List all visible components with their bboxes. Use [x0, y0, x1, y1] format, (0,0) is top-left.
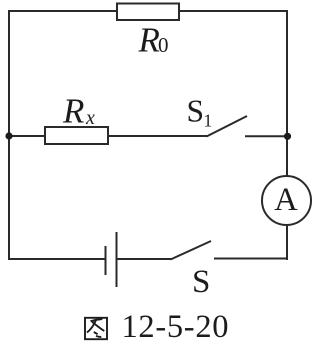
- wire right side upper: [286, 10, 288, 177]
- wire right side lower: [286, 225, 288, 261]
- battery BT1 negative plate: [105, 246, 107, 275]
- wire left side: [8, 10, 10, 260]
- wire bottom-left segment: [9, 258, 105, 260]
- wire S1 to right node: [245, 135, 287, 137]
- resistor R0: [117, 4, 179, 21]
- wire top-left segment: [9, 10, 117, 12]
- node junction left: [5, 132, 12, 139]
- wire middle segment Rx to S1: [108, 135, 207, 137]
- wire S to bottom-right corner: [214, 258, 288, 260]
- svg-text:R: R: [62, 92, 84, 131]
- wire top-right segment: [179, 10, 287, 12]
- svg-text:12-5-20: 12-5-20: [122, 309, 229, 342]
- svg-text:A: A: [274, 182, 298, 218]
- svg-text:0: 0: [158, 33, 169, 57]
- svg-text:R: R: [138, 21, 160, 60]
- svg-text:S: S: [187, 94, 205, 129]
- node junction right: [284, 133, 291, 140]
- resistor Rx: [45, 127, 108, 144]
- svg-text:S: S: [192, 264, 210, 300]
- wire middle-left segment: [9, 135, 45, 137]
- svg-text:x: x: [85, 107, 95, 129]
- caption figure glyph 图: [85, 318, 107, 339]
- switch S lever: [171, 241, 212, 260]
- battery BT1 positive plate: [116, 232, 118, 287]
- switch S1 lever: [207, 116, 248, 137]
- svg-text:1: 1: [204, 111, 213, 131]
- wire battery to switch S: [117, 258, 172, 260]
- ammeter A1 body: [262, 176, 311, 225]
